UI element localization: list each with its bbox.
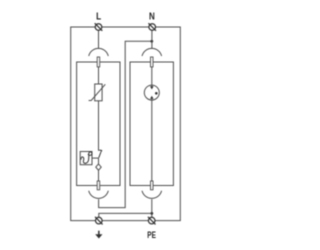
enclosure outline (71, 27, 181, 221)
PE equipotential wire to earth terminal (99, 213, 152, 217)
wire blade to varistor (98, 67, 100, 84)
wire switch to indicator (98, 158, 100, 164)
wire N terminal to top plug arc right (151, 30, 153, 48)
earth arrow (95, 231, 102, 239)
plug contact arc bottom left (89, 191, 109, 199)
spark gap top electrode arrow (150, 86, 154, 89)
wire varistor module bottom to N node (riser) (99, 41, 152, 207)
thermal disconnector switch (99, 150, 103, 158)
plug blade top right (151, 57, 154, 67)
svg-text:N: N (149, 11, 155, 22)
svg-text:L: L (96, 11, 101, 22)
spark gap circle (144, 85, 159, 100)
gas-filled indicator dot (155, 92, 158, 95)
junction node PE (150, 212, 153, 215)
wire spark gap to bottom blade (151, 99, 153, 182)
plug contact arc top right (142, 48, 162, 56)
svg-text:PE: PE (147, 230, 156, 241)
status indicator diamond (96, 164, 101, 170)
wire L terminal to top plug arc (98, 30, 100, 48)
plug blade bottom left (97, 181, 100, 190)
terminal N (148, 23, 156, 31)
wire blade to spark gap electrode (151, 67, 153, 87)
terminal L (95, 23, 103, 31)
wire cup to PE terminal (151, 199, 153, 217)
plug contact arc top left (89, 48, 109, 56)
terminal earth bottom left (95, 217, 103, 225)
link thermal box to switch (92, 157, 99, 159)
spark gap bottom electrode arrow (150, 96, 154, 99)
wire varistor to disconnector (99, 101, 102, 150)
module box left (varistor module) (77, 62, 120, 186)
wire indicator to bottom blade (98, 170, 100, 181)
plug blade bottom right (151, 181, 154, 190)
module box right (spark gap module) (130, 62, 173, 186)
plug contact arc bottom right (142, 191, 162, 199)
varistor (89, 84, 106, 101)
thermal response box (80, 152, 92, 165)
plug blade top left (97, 57, 100, 67)
junction node at N (150, 40, 153, 43)
terminal PE (148, 217, 156, 225)
theta symbol (81, 152, 92, 163)
